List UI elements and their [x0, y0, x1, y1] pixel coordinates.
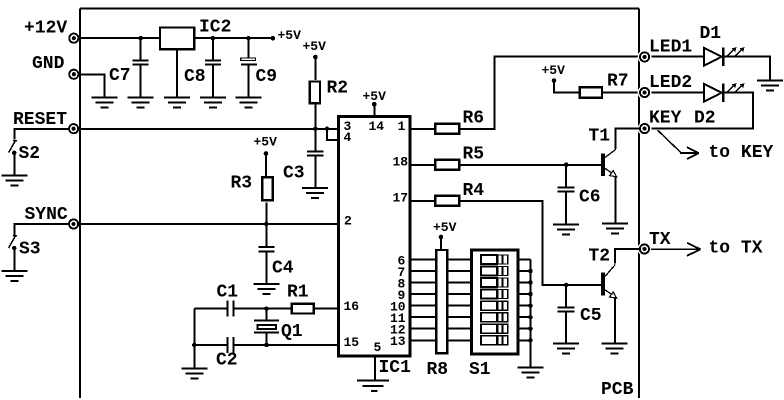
wire SYNC to S3 [14, 224, 69, 235]
svg-text:C9: C9 [256, 67, 278, 87]
svg-text:PCB: PCB [601, 380, 634, 400]
svg-text:C3: C3 [283, 164, 305, 184]
resistor R4 [435, 196, 459, 206]
capacitor C1 [194, 308, 226, 310]
wire D1 to ground [724, 57, 770, 81]
svg-text:R8: R8 [427, 360, 449, 380]
ground GND [91, 98, 117, 108]
svg-text:R3: R3 [231, 174, 253, 194]
svg-text:+5V: +5V [542, 63, 566, 78]
node C2/Q1 junction [264, 343, 269, 348]
svg-text:LED1: LED1 [649, 38, 692, 58]
svg-text:1: 1 [398, 119, 406, 134]
ground C6 [553, 224, 579, 234]
capacitor C2 [194, 344, 226, 346]
ground S2 [2, 176, 28, 186]
wire KEY to T1 collector [616, 129, 640, 149]
wires pins 6-13 to S1 [411, 259, 470, 261]
switch S2 [13, 140, 17, 142]
svg-text:17: 17 [393, 191, 409, 206]
svg-text:+5V: +5V [278, 28, 302, 43]
wire +5V to R7 [554, 81, 578, 93]
svg-text:Q1: Q1 [281, 322, 303, 342]
resistor R1 [292, 304, 314, 314]
resistor R5 [435, 160, 459, 170]
svg-text:2: 2 [344, 214, 352, 229]
node C9 junction [246, 36, 251, 41]
svg-text:+5V: +5V [303, 39, 327, 54]
wire D2 to KEY line [652, 93, 754, 129]
svg-text:IC2: IC2 [199, 18, 231, 38]
node C8 junction [211, 36, 216, 41]
wire R1 to pin 16 [315, 308, 337, 310]
ground C7 [128, 98, 154, 108]
svg-text:+5V: +5V [363, 89, 387, 104]
ground C4 [253, 284, 279, 294]
wire +5V to R2 [314, 57, 316, 80]
ground IC2 [164, 98, 190, 108]
wire TX to T2 collector [615, 249, 639, 264]
svg-text:to KEY: to KEY [709, 143, 774, 163]
terminal KEY [638, 122, 652, 136]
svg-text:+12V: +12V [24, 19, 67, 39]
PCB left border [79, 9, 81, 399]
wires S1 right to bus [518, 259, 531, 261]
ground C5 [553, 344, 579, 354]
ground IC1 pin5 [357, 379, 389, 381]
S1 ground bus [530, 260, 532, 368]
svg-text:C5: C5 [580, 306, 602, 326]
terminal TX [638, 242, 652, 256]
ground crystal net [181, 368, 207, 378]
svg-text:16: 16 [344, 299, 360, 314]
crystal Q1 [266, 309, 268, 321]
wire LED1 to D1 [652, 56, 705, 58]
svg-text:R2: R2 [327, 79, 349, 99]
resistor R6 [435, 124, 459, 134]
wire RESET to S2 [14, 129, 69, 140]
resistor R3 [262, 177, 272, 200]
ground T2 [601, 344, 627, 354]
svg-text:KEY: KEY [649, 109, 682, 129]
svg-text:R4: R4 [463, 181, 485, 201]
node C2 left junction [192, 343, 197, 348]
svg-text:R7: R7 [607, 72, 629, 92]
svg-text:GND: GND [32, 54, 65, 74]
svg-text:T2: T2 [589, 247, 611, 267]
ground C9 [236, 98, 262, 108]
svg-text:RESET: RESET [13, 110, 67, 130]
ground S3 [2, 271, 28, 281]
svg-text:R1: R1 [287, 282, 309, 302]
wire R3 to SYNC line [265, 203, 267, 225]
node +5V rail end [271, 36, 276, 41]
svg-text:13: 13 [390, 334, 406, 349]
svg-text:15: 15 [344, 335, 360, 350]
svg-text:to TX: to TX [709, 239, 763, 259]
wire pin 16 net: left vertical [193, 309, 195, 369]
wire T1 emitter to ground [615, 176, 617, 224]
wire +5V to R8 [440, 237, 442, 249]
svg-text:+5V: +5V [433, 220, 457, 235]
wire S2 to ground [13, 153, 15, 176]
svg-text:D2: D2 [694, 109, 716, 129]
capacitor C9 electrolytic [248, 38, 250, 58]
wire GND [78, 74, 104, 97]
D1 emission arrows [728, 49, 743, 56]
svg-text:C2: C2 [216, 351, 238, 371]
wire R4 to T2 base [460, 201, 602, 285]
svg-text:C6: C6 [579, 188, 601, 208]
resistor network R8 [436, 250, 447, 353]
capacitor C8 [212, 38, 214, 59]
svg-text:SYNC: SYNC [25, 205, 68, 225]
switch S3 [13, 235, 17, 237]
wire pin 4 stub [327, 129, 339, 140]
svg-text:D1: D1 [700, 24, 722, 44]
svg-text:+5V: +5V [254, 135, 278, 150]
svg-text:S1: S1 [469, 360, 491, 380]
wire pin 5 to ground [374, 357, 376, 380]
wire RESET to IC1 pin3 [78, 128, 337, 130]
svg-text:TX: TX [649, 230, 671, 250]
svg-text:C4: C4 [272, 259, 294, 279]
node C5 junction [564, 283, 569, 288]
terminal LED1 [638, 50, 652, 64]
terminal SYNC [69, 219, 78, 228]
svg-text:C1: C1 [217, 282, 239, 302]
ground D1 [757, 81, 783, 91]
wire IC2 out to +5V [195, 37, 272, 39]
node R2/C3 junction [313, 126, 318, 131]
svg-text:C7: C7 [109, 66, 131, 86]
terminal +12V [69, 34, 78, 43]
D2 emission arrows [728, 85, 743, 92]
svg-text:S3: S3 [19, 240, 41, 260]
wire IC2 gnd pin [176, 50, 178, 97]
DIP switch S1 [472, 250, 519, 354]
wire pin 1 to R6 [411, 128, 434, 130]
wire T2 emitter to ground [614, 297, 616, 343]
wire R5 to T1 base [460, 164, 602, 166]
capacitor C7 [140, 38, 142, 59]
terminal RESET [69, 124, 78, 133]
resistor R7 [580, 87, 602, 97]
arrow to KEY [658, 130, 682, 153]
terminal GND [69, 70, 78, 79]
capacitor C3 [314, 129, 316, 151]
ground T1 [602, 224, 628, 234]
svg-text:18: 18 [393, 155, 409, 170]
wire R2 to RESET line [314, 105, 316, 129]
svg-text:R5: R5 [463, 145, 485, 165]
wire +5V to R3 [265, 154, 267, 177]
regulator IC2 [160, 28, 194, 50]
arrow to TX [651, 248, 701, 250]
wire R7 to LED2 terminal [603, 92, 640, 94]
resistor R2 [310, 82, 320, 104]
ground S1 [518, 368, 544, 378]
capacitor C5 [565, 285, 567, 306]
wire +12V to IC2 [78, 37, 159, 39]
wire pin 18 to R5 [411, 164, 434, 166]
terminal LED2 [638, 86, 652, 100]
wire SYNC to IC1 pin2 [78, 223, 337, 225]
svg-text:S2: S2 [19, 144, 41, 164]
S1 switch elements [481, 255, 508, 345]
wire S3 to ground [13, 248, 15, 271]
node pin4 junction [325, 126, 330, 131]
svg-text:IC1: IC1 [379, 358, 412, 378]
svg-text:4: 4 [344, 130, 352, 145]
ground C3 [302, 188, 328, 198]
wire pin 17 to R4 [411, 200, 434, 202]
node C6 junction [564, 162, 569, 167]
svg-text:C8: C8 [184, 67, 206, 87]
svg-text:R6: R6 [463, 109, 485, 129]
node C1/R1/Q1 junction [264, 306, 269, 311]
IC IC1 [339, 117, 410, 356]
svg-text:LED2: LED2 [649, 73, 692, 93]
wire +5V to pin 14 [373, 104, 375, 116]
ground C8 [200, 98, 226, 108]
svg-text:T1: T1 [589, 127, 611, 147]
capacitor C4 [265, 224, 267, 246]
capacitor C6 [565, 165, 567, 187]
svg-text:14: 14 [369, 119, 385, 134]
PCB top border [80, 8, 639, 10]
wire R6 up and over to LED1 [460, 57, 640, 129]
PCB right border [638, 9, 640, 399]
node C7 junction [138, 36, 143, 41]
node SYNC/C4 junction [264, 222, 269, 227]
wire LED2 to D2 [652, 92, 705, 94]
svg-text:5: 5 [374, 340, 382, 355]
